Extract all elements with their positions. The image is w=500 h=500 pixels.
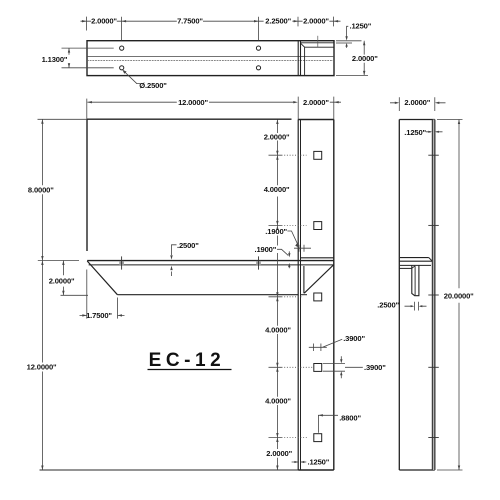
svg-text:2.0000": 2.0000": [49, 277, 75, 286]
top view: end cap double line: [298, 41, 300, 76]
front view: shelf bottom edge: [117, 294, 298, 296]
front view: square hole 1: [314, 151, 322, 159]
front view: gusset diagonal: [304, 265, 333, 293]
svg-text:12.0000": 12.0000": [178, 98, 208, 107]
front view: weld mark left: [119, 261, 124, 265]
svg-text:.3900": .3900": [343, 334, 365, 343]
side view: gusset bar top bevel: [412, 266, 415, 269]
dim row 12.0000 / 2.0000 above front view: line segments: [87, 101, 341, 103]
dim .1250 bottom column: [292, 461, 307, 463]
svg-text:2.0000": 2.0000": [303, 17, 329, 26]
dim .1250 top right: cap line extension: [336, 42, 352, 44]
svg-text:2.0000": 2.0000": [352, 54, 378, 63]
dim .2500 shelf thickness leader: [172, 245, 177, 276]
svg-text:.8800": .8800": [339, 414, 361, 423]
dim 2.0000 top right vertical: [336, 41, 368, 76]
svg-text:.2500": .2500": [377, 301, 399, 310]
top view: hole bottom-left: [120, 66, 124, 70]
hole level extension lines dotted: [269, 155, 282, 437]
front view: column outer left line: [297, 120, 299, 471]
title underline: [148, 369, 232, 371]
side view: shelf ledge top line: [400, 257, 429, 259]
top view: end cap chamfer: [301, 43, 305, 47]
dim row top view: arrowheads: [82, 20, 338, 22]
front view: square hole 2: [314, 222, 322, 230]
side view: wall tick hole level 4: [428, 366, 439, 368]
svg-text:8.0000": 8.0000": [28, 186, 54, 195]
side view: wall outer line: [434, 120, 436, 471]
side view: left edge: [398, 120, 400, 471]
svg-text:2.0000": 2.0000": [404, 98, 430, 107]
front view: square hole 4: [314, 364, 322, 372]
side view: shelf rear short line: [399, 267, 412, 269]
front view: column ledge line: [301, 257, 334, 259]
front view: shelf plate bottom line: [89, 264, 334, 266]
dim 1.7500 below shelf: [80, 270, 125, 319]
leader .1900 lower: [277, 249, 289, 268]
front view: column right edge: [333, 120, 335, 471]
side view: shelf bottom line: [400, 264, 431, 266]
side view: gusset bar outline: [412, 266, 419, 296]
dim .2500 side gusset: [405, 302, 427, 311]
svg-text:20.0000": 20.0000": [444, 291, 474, 300]
extension tick inside cap: [317, 36, 319, 47]
front view: panel top edge: [87, 118, 292, 120]
svg-text:.1250": .1250": [350, 22, 372, 31]
dim 20.0000 side: [437, 120, 463, 471]
side view: shelf top line: [399, 260, 432, 262]
svg-text:.1900": .1900": [265, 227, 287, 236]
dim .1250 top right: extension of bar top edge: [336, 40, 362, 42]
dim row top view: ticks: [87, 17, 334, 41]
front view: square hole 5: [314, 434, 322, 442]
svg-text:4.0000": 4.0000": [265, 397, 291, 406]
svg-text:1.1300": 1.1300": [42, 55, 68, 64]
svg-text:12.0000": 12.0000": [27, 363, 57, 372]
extension line top edge left: [38, 118, 88, 120]
front inner dimension stack x=277.4: [276, 120, 278, 471]
top view: hidden line dashed: [87, 60, 334, 62]
front view: gusset vertical edge: [303, 266, 305, 293]
front view: shelf top line: [87, 260, 334, 262]
front view: weld mark right: [256, 261, 261, 265]
svg-text:1.7500": 1.7500": [86, 311, 112, 320]
dim row 2.0000 above side view: [390, 97, 446, 111]
top view: hole bottom-right: [256, 66, 260, 70]
dim row top view: line segments: [81, 20, 341, 22]
svg-text:2.0000": 2.0000": [91, 17, 117, 26]
svg-text:.3900": .3900": [364, 363, 386, 372]
svg-text:.1250": .1250": [308, 458, 330, 467]
svg-text:2.0000": 2.0000": [264, 133, 290, 142]
front view: shelf slant edge: [87, 261, 117, 295]
top view: hole top-right: [256, 46, 260, 50]
leader dia .2500: arrow and line: [123, 71, 140, 84]
side view: wall tick hole level 2: [428, 224, 439, 226]
dim 1.1300: hole centerlines: [62, 48, 114, 68]
dim 2.0000 shelf left: [61, 261, 89, 296]
dim .1250 top right: leader and arrows: [347, 26, 349, 48]
svg-text:Ø.2500": Ø.2500": [139, 81, 167, 90]
dim .1250 side view: [426, 131, 443, 133]
leader .1900 upper: [287, 231, 311, 252]
top view: seam line solid: [87, 56, 334, 58]
left outer dimension line 8.0000 / 12.0000: [41, 119, 43, 470]
top view: hole top-left: [120, 46, 124, 50]
top view: end cap top fold line: [301, 42, 335, 44]
svg-text:4.0000": 4.0000": [264, 185, 290, 194]
side view: gusset bar inner line: [414, 266, 416, 295]
front view: square hole 3: [314, 293, 322, 301]
dim .3900 lower (hole height): [323, 356, 363, 378]
dim row above front view: ticks: [298, 97, 334, 120]
top view: bar outline: [87, 41, 334, 76]
side view: wall tick hole level 3: [428, 294, 439, 296]
front view: panel left edge: [86, 119, 88, 251]
left extension line x=86.8 from top dim to panel: [86, 99, 88, 120]
svg-text:4.0000": 4.0000": [265, 326, 291, 335]
side view: ledge chamfer: [429, 258, 432, 261]
front view: bottom edge line full: [40, 469, 299, 471]
front view: column top edge: [298, 119, 334, 121]
side view: bottom edge: [399, 469, 435, 471]
side view: wall inner line: [431, 120, 433, 471]
front view: column inner left line: [300, 120, 302, 471]
dim 1.1300: vertical line: [68, 48, 70, 68]
front view: column bottom edge: [298, 469, 334, 471]
side view: wall tick hole level 1: [428, 154, 439, 156]
svg-text:2.0000": 2.0000": [266, 449, 292, 458]
extension line shelf top left: [38, 260, 79, 262]
front view: gusset foot: [301, 294, 308, 296]
top view: end cap inner line: [305, 47, 334, 75]
svg-text:E C - 1 2: E C - 1 2: [149, 350, 221, 371]
svg-text:2.0000": 2.0000": [303, 98, 329, 107]
svg-text:2.2500": 2.2500": [265, 17, 291, 26]
svg-text:.1900": .1900": [255, 245, 277, 254]
svg-text:.1250": .1250": [404, 128, 426, 137]
side view: wall tick hole level 5: [428, 437, 439, 439]
dim .3900 upper (hole width): [309, 339, 342, 351]
leader .8800: [318, 415, 338, 433]
side view: wall gray fill: [432, 120, 435, 471]
svg-text:.2500": .2500": [177, 241, 199, 250]
side view: top edge: [399, 119, 435, 121]
svg-text:7.7500": 7.7500": [177, 17, 203, 26]
